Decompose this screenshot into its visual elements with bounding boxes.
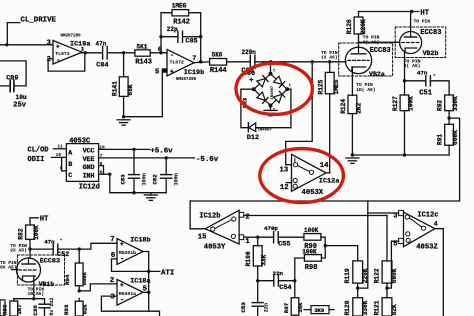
- triode VB2b ECC83: [395, 27, 446, 58]
- svg-text:CL/OD: CL/OD: [28, 146, 49, 154]
- node ATI label: [161, 269, 174, 277]
- svg-text:1D( A6): 1D( A6): [356, 87, 375, 93]
- component edge stub bottom left: [0, 300, 5, 316]
- capacitor C55 470p: [264, 225, 290, 249]
- svg-text:3K9: 3K9: [314, 307, 325, 314]
- label TO PIN R126: [363, 35, 380, 46]
- resistor R121 82K: [373, 288, 398, 316]
- svg-text:4053Y: 4053Y: [204, 243, 226, 251]
- triode VB1b ECC83: [17, 255, 65, 288]
- junction ATI node: [147, 270, 150, 273]
- svg-text:ODII: ODII: [28, 156, 45, 164]
- svg-text:INH: INH: [83, 172, 95, 179]
- label TO PIN VB1b grid: [0, 260, 17, 271]
- wire C51 right to R92: [430, 81, 449, 95]
- node +5.6v label: [150, 147, 173, 155]
- svg-text:VB2b: VB2b: [423, 50, 439, 57]
- op-amp IC19a: [47, 34, 91, 64]
- op-amp IC19b: [155, 47, 204, 83]
- svg-text:R124: R124: [340, 99, 347, 114]
- junction IC19b output feedback: [199, 60, 202, 63]
- svg-text:IC18a: IC18a: [130, 278, 150, 286]
- highlight ellipse bridge: [236, 63, 312, 114]
- analog switch IC12b 4053Y: [198, 210, 251, 251]
- svg-text:+5.6v: +5.6v: [150, 147, 173, 155]
- svg-text:22p: 22p: [167, 26, 178, 33]
- svg-text:t: t: [289, 84, 292, 89]
- svg-text:GND: GND: [83, 164, 95, 171]
- wire INH to bottom rail: [110, 174, 166, 193]
- node HT label left: [40, 216, 49, 224]
- junction R91 top: [447, 116, 450, 119]
- wire bridge right loop: [287, 89, 291, 128]
- resistor R98 100K: [302, 248, 321, 271]
- svg-text:TO PIN: TO PIN: [414, 19, 431, 25]
- resistor R142 1MEG feedback: [161, 2, 201, 36]
- resistor R126 220K: [346, 12, 367, 48]
- wire R98 left to C54 node: [295, 258, 305, 281]
- node CL/OD label: [28, 146, 49, 154]
- highlight ellipse IC12a: [260, 149, 344, 203]
- wire R99 right: [321, 237, 325, 245]
- svg-text:R91: R91: [436, 134, 443, 145]
- wire VB1b anode: [29, 249, 31, 258]
- svg-text:+: +: [120, 282, 124, 289]
- bridge rectifier BR3 diamond: [252, 72, 289, 108]
- wire R144 to C86: [227, 61, 251, 63]
- wire GND INH tie: [99, 166, 110, 175]
- svg-text:ECC83: ECC83: [370, 47, 391, 55]
- svg-text:C89: C89: [6, 75, 18, 83]
- svg-text:C: C: [68, 172, 72, 179]
- node HT label top: [420, 9, 429, 17]
- svg-text:HT: HT: [420, 9, 429, 17]
- svg-text:R82: R82: [17, 228, 24, 239]
- svg-text:ECC83: ECC83: [420, 29, 441, 37]
- junction drop to IC12a: [311, 60, 314, 63]
- junction R94 bottom node: [78, 289, 81, 292]
- wire VB2a cathode to R124: [351, 67, 353, 95]
- svg-text:M5201b: M5201b: [119, 250, 136, 256]
- wire ground rail to IC19b pin5: [124, 71, 167, 117]
- svg-text:13: 13: [280, 167, 289, 175]
- label 1N4007 bridge: [271, 85, 275, 99]
- wire IC18b feedback: [112, 259, 118, 272]
- svg-text:-5.6v: -5.6v: [196, 156, 219, 164]
- svg-text:47n: 47n: [96, 40, 107, 47]
- wire C55 to R99: [278, 236, 304, 238]
- svg-text:R120: R120: [344, 300, 351, 315]
- svg-text:C55: C55: [278, 241, 290, 249]
- svg-text:330K: 330K: [452, 96, 459, 111]
- label TO PIN VB2b anode: [414, 19, 431, 25]
- capacitor C36 2u2: [32, 298, 55, 316]
- svg-text:R127: R127: [392, 96, 399, 111]
- svg-text:7: 7: [110, 236, 114, 244]
- resistor R99 100K: [304, 227, 321, 251]
- resistor R143 5K1: [135, 43, 152, 66]
- wire C86 to tube VB2a grid: [255, 61, 346, 63]
- svg-text:R119: R119: [344, 268, 351, 283]
- junction R94 top: [78, 247, 81, 250]
- svg-text:B: B: [68, 161, 72, 168]
- svg-text:C51: C51: [419, 90, 432, 98]
- svg-text:4: 4: [434, 220, 438, 227]
- op-amp IC18b: [110, 236, 150, 264]
- junction IC19a output: [84, 51, 87, 54]
- capacitor C83 100n: [119, 149, 147, 192]
- wire C52 right: [58, 243, 117, 249]
- svg-text:R126: R126: [346, 19, 353, 34]
- svg-text:1N4007: 1N4007: [258, 129, 273, 133]
- junction C54 right: [293, 279, 296, 282]
- svg-text:100K: 100K: [302, 248, 317, 255]
- svg-text:R141: R141: [112, 81, 119, 96]
- svg-text:D12: D12: [247, 134, 259, 142]
- junction R141 top node: [122, 51, 125, 54]
- svg-text:R122: R122: [373, 268, 380, 283]
- svg-text:3: 3: [110, 294, 115, 302]
- wire IC12a output to R125: [326, 172, 330, 174]
- svg-text:ATI: ATI: [161, 269, 174, 277]
- wire VB1b cathode down: [33, 276, 35, 299]
- wire main input: [0, 44, 53, 46]
- svg-text:12: 12: [280, 184, 289, 192]
- svg-text:IC12d: IC12d: [79, 184, 100, 192]
- svg-text:CL_DRIVE: CL_DRIVE: [21, 16, 57, 24]
- resistor R127 100K: [392, 95, 415, 155]
- svg-text:15: 15: [198, 233, 207, 241]
- svg-text:+: +: [120, 241, 124, 248]
- svg-text:22n: 22n: [264, 303, 270, 312]
- wire R99 junction to R119: [325, 246, 358, 261]
- svg-text:R121: R121: [373, 300, 380, 315]
- svg-text:3: 3: [393, 212, 397, 220]
- wire IC19a output: [82, 52, 102, 54]
- svg-text:IC18b: IC18b: [130, 237, 150, 245]
- wire HT VB1b: [30, 218, 38, 225]
- svg-text:2K2: 2K2: [355, 102, 362, 113]
- wire R91 junction to long net: [190, 118, 460, 201]
- svg-text:R100: R100: [245, 251, 252, 266]
- svg-text:C36: C36: [32, 305, 39, 316]
- svg-text:*: *: [433, 74, 436, 80]
- svg-text:6: 6: [158, 47, 162, 55]
- svg-text:220n: 220n: [242, 49, 257, 56]
- resistor R124 2K2: [340, 95, 363, 155]
- junction cathode node: [32, 297, 35, 300]
- svg-text:IC19b: IC19b: [184, 69, 204, 77]
- svg-text:NM207280: NM207280: [176, 78, 197, 82]
- junction R127 bottom: [403, 153, 406, 156]
- wire cathode node rail: [14, 298, 45, 300]
- svg-text:2: 2: [245, 213, 249, 221]
- svg-text:5: 5: [155, 69, 159, 77]
- node ODII label: [28, 156, 45, 164]
- svg-text:-: -: [170, 52, 174, 60]
- wire pin3 net down to R119 junction: [358, 213, 368, 288]
- wire HT rail top: [359, 11, 419, 13]
- wire C84 to R143: [107, 52, 135, 54]
- svg-text:C54: C54: [279, 284, 291, 292]
- wire CL/OD to pin A: [54, 148, 67, 150]
- node CL_DRIVE label and wire: [7, 16, 56, 45]
- capacitor C85 22p: [167, 26, 198, 46]
- wire IC12b pin1: [244, 236, 274, 238]
- diode D12 1N4007: [246, 123, 291, 142]
- svg-text:-: -: [120, 256, 124, 264]
- svg-text:220K: 220K: [360, 19, 367, 34]
- svg-text:100K: 100K: [304, 227, 319, 234]
- svg-text:R92: R92: [436, 100, 443, 111]
- junction C83 bottom: [132, 191, 135, 194]
- svg-text:R143: R143: [135, 59, 152, 67]
- svg-text:ECC83: ECC83: [40, 258, 60, 266]
- resistor R122 600K: [373, 261, 398, 288]
- wire cathode ground rail: [352, 154, 449, 156]
- svg-text:VCC: VCC: [83, 148, 95, 155]
- svg-text:10u: 10u: [16, 94, 27, 101]
- wire IC12c pin5: [387, 241, 399, 288]
- svg-text:*: *: [60, 238, 63, 244]
- resistor R144 5K6: [210, 51, 227, 75]
- svg-text:220K: 220K: [362, 268, 369, 283]
- wire bridge left loop: [241, 89, 254, 128]
- svg-text:1MEG: 1MEG: [333, 79, 340, 94]
- resistor R83 2K7: [1, 299, 23, 316]
- svg-text:C84: C84: [96, 62, 108, 70]
- junction C82 top: [165, 156, 168, 159]
- junction R119 bottom: [356, 286, 359, 289]
- svg-text:1N4007: 1N4007: [271, 85, 275, 99]
- capacitor C53 22n: [240, 281, 270, 316]
- resistor R125 1MEG: [317, 62, 340, 173]
- bridge plus mark: [249, 77, 253, 85]
- label TO PIN VB2a cathode: [356, 82, 375, 93]
- svg-text:+: +: [170, 69, 174, 76]
- wire C54 wires: [258, 280, 295, 282]
- svg-text:100n: 100n: [174, 173, 180, 185]
- triode VB2a ECC83: [339, 43, 393, 78]
- svg-text:8v 2u2: 8v 2u2: [49, 298, 55, 316]
- wire long net to IC12c pin3: [368, 201, 399, 213]
- wire C85 right: [183, 37, 201, 62]
- label TO PIN R82: [10, 243, 27, 254]
- wire C85 left: [161, 37, 178, 53]
- svg-text:5K1: 5K1: [137, 43, 148, 50]
- junction INH node: [108, 173, 111, 176]
- svg-text:47n: 47n: [417, 69, 428, 76]
- wire IC12b pin15 to long net: [190, 201, 205, 229]
- svg-text:82K: 82K: [391, 304, 398, 315]
- resistor 3K9: [304, 306, 334, 314]
- ground cathode rail: [346, 158, 359, 163]
- svg-text:82K: 82K: [81, 304, 88, 315]
- junction C51 tap: [403, 79, 406, 82]
- junction R99 R98 node: [324, 244, 327, 247]
- wire IC18a output stub: [143, 291, 149, 293]
- svg-text:4053X: 4053X: [302, 189, 324, 197]
- capacitor C54 22n: [273, 270, 292, 292]
- capacitor C84 47n: [96, 40, 109, 69]
- svg-text:2( A6): 2( A6): [404, 63, 421, 69]
- wire IC12b pin2 long wire: [244, 215, 387, 217]
- svg-text:5K6: 5K6: [212, 51, 223, 58]
- label C86 bridge area: [241, 68, 254, 76]
- resistor R91 600K: [436, 118, 458, 155]
- capacitor C86 220n: [242, 49, 257, 78]
- resistor R141 68K: [112, 53, 134, 117]
- label TO PIN VB2b cathode: [404, 58, 421, 69]
- junction R125 top: [328, 60, 331, 63]
- resistor R92 330K: [436, 95, 458, 118]
- junction C85 branch: [159, 51, 162, 54]
- svg-text:C53: C53: [240, 302, 247, 313]
- junction R122 bottom: [385, 286, 388, 289]
- svg-text:1MEG: 1MEG: [172, 2, 187, 9]
- bridge tick marks: [273, 69, 292, 113]
- svg-text:+: +: [249, 77, 253, 85]
- svg-text:VEE: VEE: [83, 156, 95, 163]
- junction C83 top: [132, 148, 135, 151]
- svg-text:4053C: 4053C: [69, 138, 90, 146]
- junction C85 right: [199, 35, 202, 38]
- wire VB1b grid stub: [12, 269, 17, 271]
- svg-text:+: +: [56, 43, 60, 50]
- svg-text:2X A5): 2X A5): [10, 248, 27, 254]
- wire IC19a feedback: [48, 53, 85, 71]
- capacitor C51 47n: [417, 69, 436, 97]
- wire ATI: [112, 270, 160, 272]
- bridge bottom lead: [270, 106, 272, 111]
- svg-text:IC12a: IC12a: [319, 178, 339, 186]
- svg-text:R97: R97: [283, 302, 290, 313]
- wire R143 to IC19b pin6: [150, 52, 167, 54]
- wire C52 left: [30, 248, 53, 250]
- svg-text:4053Z: 4053Z: [416, 244, 438, 252]
- junction C54 left: [256, 279, 259, 282]
- svg-text:600K: 600K: [452, 130, 459, 145]
- wire ODII to pins B C: [52, 157, 67, 170]
- svg-text:47n: 47n: [44, 239, 55, 246]
- resistor R97 36K: [283, 281, 304, 316]
- svg-text:TL072: TL072: [55, 51, 70, 57]
- svg-text:R93: R93: [63, 304, 70, 315]
- svg-text:22n: 22n: [273, 270, 284, 277]
- wire IC12c output: [435, 229, 443, 316]
- analog switch IC12c 4053Z: [393, 210, 438, 251]
- svg-text:33K: 33K: [261, 254, 268, 265]
- svg-text:1: 1: [245, 238, 250, 246]
- svg-text:36K: 36K: [297, 302, 304, 313]
- svg-text:R125: R125: [317, 79, 324, 94]
- junction R124 bottom: [351, 153, 354, 156]
- svg-text:330K: 330K: [362, 300, 369, 315]
- ground bridge: [264, 110, 277, 115]
- wire VB2a anode to VB2b grid: [359, 41, 400, 43]
- svg-text:TL072: TL072: [170, 59, 185, 65]
- wire R122 top to pin2 net: [386, 216, 388, 261]
- svg-text:VB2a: VB2a: [369, 71, 385, 78]
- svg-text:A: A: [68, 149, 72, 156]
- resistor R119 220K: [344, 261, 369, 288]
- svg-text:R144: R144: [210, 67, 227, 75]
- capacitor C52 47n: [44, 238, 69, 259]
- svg-text:3: 3: [47, 40, 51, 48]
- svg-text:680K: 680K: [81, 271, 88, 285]
- junction IC18a output: [147, 291, 150, 294]
- wire VEE to -5.6v: [99, 157, 195, 159]
- svg-text:100K: 100K: [33, 225, 40, 240]
- svg-text:-: -: [56, 57, 60, 65]
- svg-text:25v: 25v: [13, 102, 26, 110]
- wire IC18a feedback: [101, 296, 148, 311]
- svg-text:C82: C82: [152, 174, 159, 185]
- wire VB2b cathode down: [404, 51, 406, 95]
- resistor R93 82K: [63, 298, 88, 316]
- wire drop to IC12a pin13: [286, 62, 313, 165]
- junction input node: [5, 43, 8, 46]
- svg-text:470p: 470p: [264, 225, 278, 232]
- junction VB1b anode node: [28, 247, 31, 250]
- junction R100 top: [256, 236, 259, 239]
- junction VB2b anode HT: [410, 10, 413, 13]
- svg-text:M5201a: M5201a: [119, 291, 136, 297]
- op-amp IC18a: [110, 277, 151, 305]
- wire VCC to +5.6v: [99, 148, 150, 150]
- ground R141: [117, 120, 130, 125]
- svg-text:C83: C83: [119, 174, 126, 185]
- svg-text:R94: R94: [64, 274, 71, 285]
- analog switch IC12a 4053X: [280, 154, 340, 197]
- node -5.6v label: [196, 156, 219, 164]
- svg-text:IC12b: IC12b: [199, 213, 220, 221]
- wire IC12a pin12 stub: [286, 182, 291, 184]
- wire IC19b output: [194, 61, 210, 64]
- junction C85 left: [159, 35, 162, 38]
- svg-text:100n: 100n: [142, 173, 148, 185]
- IC IC12d 4053C box: [56, 138, 105, 192]
- svg-text:HT: HT: [40, 216, 49, 224]
- label TO PIN VB2a grid: [321, 50, 338, 61]
- svg-text:NM207280: NM207280: [61, 34, 82, 38]
- wire IC18b output: [143, 252, 160, 316]
- svg-text:1R(A5): 1R(A5): [28, 291, 45, 297]
- svg-text:1X A6): 1X A6): [321, 54, 338, 60]
- wire C51 left: [405, 80, 426, 82]
- svg-text:600K: 600K: [391, 268, 398, 283]
- resistor R120 330K: [344, 288, 369, 316]
- svg-text:C85: C85: [185, 38, 197, 46]
- svg-text:2K7: 2K7: [16, 304, 23, 314]
- svg-text:IC12c: IC12c: [417, 212, 438, 220]
- capacitor C82 100n: [152, 158, 180, 193]
- junction R141 bottom: [122, 115, 125, 118]
- ground decoupling rail: [144, 193, 157, 201]
- bridge top lead: [270, 62, 272, 74]
- wire IC18a pin2: [79, 284, 117, 291]
- svg-text:-: -: [120, 296, 124, 304]
- resistor R94 680K: [64, 249, 88, 291]
- resistor R100 33K: [245, 237, 267, 281]
- svg-text:68K: 68K: [127, 84, 134, 95]
- capacitor C89 box and symbol: [0, 61, 27, 110]
- wire R98 right: [321, 246, 325, 258]
- svg-text:14: 14: [320, 162, 329, 170]
- wire VB2b anode: [410, 12, 412, 32]
- svg-text:t: t: [273, 69, 276, 74]
- label BR3: [242, 97, 249, 108]
